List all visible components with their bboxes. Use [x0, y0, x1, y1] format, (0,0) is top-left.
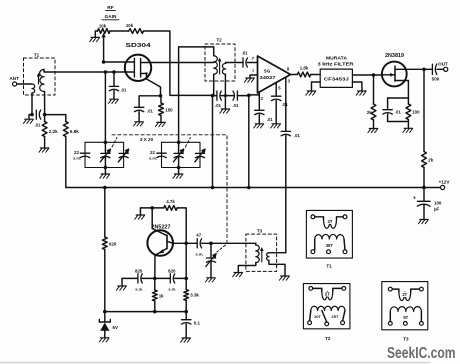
wire 820 to collector node	[175, 242, 188, 281]
2N3819 gate arrow	[382, 73, 395, 77]
detail box T2	[303, 284, 350, 329]
ground 4.7k base	[135, 206, 154, 219]
source RC loop bottom	[388, 114, 409, 121]
label T1 detail	[326, 264, 332, 269]
T2 secondary coil	[222, 63, 225, 74]
svg-text:SG: SG	[264, 69, 271, 74]
capacitor .01 pin 7	[242, 51, 248, 68]
transformer T3 (dashed box)	[246, 229, 277, 272]
ground 0.1 cap	[181, 324, 191, 342]
capacitor 22 tank2	[157, 153, 166, 157]
svg-text:100: 100	[412, 110, 420, 115]
svg-text:2N3819: 2N3819	[385, 53, 404, 59]
capacitor .01 pin 2	[255, 110, 274, 122]
transistor SD304	[125, 43, 151, 81]
capacitor 22 tank1	[80, 153, 89, 157]
svg-text:.01: .01	[147, 108, 153, 113]
svg-text:3.3k: 3.3k	[190, 293, 199, 298]
svg-text:10k: 10k	[99, 24, 107, 29]
capacitor .01 injection	[281, 131, 300, 138]
2N3819 channel bar	[394, 66, 396, 81]
2N5227 base lead	[152, 208, 167, 236]
svg-text:s.m.: s.m.	[168, 286, 176, 291]
label 3 X 20 gang	[140, 137, 154, 142]
capacitor .01 source bypass	[134, 96, 160, 114]
svg-text:SD304: SD304	[126, 43, 151, 49]
T3 detail bottom terminals	[388, 322, 423, 326]
pin 8 output	[287, 67, 297, 75]
svg-text:+: +	[413, 196, 416, 202]
label T3 detail	[403, 337, 409, 342]
wire T2 primary top to tank 2	[179, 47, 214, 142]
wire cap to pin 7	[247, 56, 257, 63]
wire T1 secondary top to gate 1	[44, 69, 126, 72]
svg-text:620: 620	[109, 242, 117, 247]
transformer T1 (dashed box)	[24, 53, 56, 96]
wire +12V bus	[66, 186, 426, 190]
pin 3 injection wire	[286, 78, 291, 132]
capacitor .01 pin 5	[272, 96, 289, 107]
ground 100uF	[418, 205, 428, 224]
transistor Q2 2N3819	[382, 53, 407, 86]
ground T3 secondary	[279, 276, 289, 280]
ground source cap	[134, 112, 144, 126]
capacitor 0.1	[182, 312, 201, 326]
node emitter junction	[153, 277, 157, 281]
T2 detail 2T winding	[313, 288, 342, 299]
resistor 3.3k	[184, 278, 200, 311]
capacitor 820 s.m. left	[135, 268, 155, 291]
svg-text:RF: RF	[107, 5, 113, 11]
resistor 2k drain load	[422, 69, 434, 167]
T2 detail tapped winding	[310, 306, 345, 322]
variable capacitor oscillator	[206, 243, 216, 277]
ground source RC	[403, 122, 413, 133]
svg-text:.01: .01	[242, 51, 248, 56]
wire 620 to zener node	[103, 250, 107, 314]
T1 secondary coil	[40, 69, 44, 91]
svg-text:s.m.: s.m.	[149, 156, 157, 161]
T2 detail bottom terminals	[308, 321, 345, 326]
svg-text:25T: 25T	[332, 314, 339, 319]
label T2 detail	[325, 336, 331, 341]
svg-text:.01: .01	[267, 117, 273, 122]
svg-text:2T: 2T	[325, 292, 330, 297]
svg-text:47: 47	[196, 233, 201, 238]
svg-text:MURATA: MURATA	[326, 56, 348, 61]
ground zener	[99, 331, 109, 342]
tank 2 box	[162, 142, 201, 167]
wire gate1 to tank 1	[104, 72, 108, 144]
ground gate cap	[108, 91, 118, 104]
resistor 6.8k	[63, 115, 79, 137]
detail box T1	[306, 210, 352, 258]
capacitor 100uF electrolytic	[413, 188, 442, 212]
T1 detail top terminals	[311, 215, 347, 219]
resistor 620	[102, 188, 116, 250]
ground filter right	[352, 82, 366, 95]
wire supply node to +12V bus	[248, 95, 250, 187]
node A B+ junction	[211, 94, 215, 98]
wire 4.7k to collector	[177, 208, 186, 243]
T1 detail bottom terminals	[311, 250, 347, 254]
pin 5 wire	[276, 83, 281, 97]
svg-text:7: 7	[252, 56, 255, 61]
svg-text:.01: .01	[232, 103, 238, 108]
svg-text:10T: 10T	[314, 314, 321, 319]
zener diode 6V	[99, 312, 119, 331]
T3 detail 5T winding	[390, 307, 421, 322]
wire T2 primary bottom	[213, 74, 215, 95]
tank 1 box	[85, 142, 124, 167]
wire 47 to osc tank	[202, 242, 256, 246]
resistor 2.2k	[42, 122, 58, 137]
wire filter output	[352, 73, 382, 77]
ground cap chain	[220, 96, 230, 114]
transistor Q1 2N5227	[147, 225, 173, 256]
svg-text:2k: 2k	[367, 110, 372, 115]
variable capacitor tank2 main	[173, 142, 183, 167]
svg-text:.01: .01	[35, 123, 41, 128]
svg-text:8: 8	[287, 67, 290, 72]
capacitor 820 s.m. right	[155, 268, 177, 291]
2N3819 drain lead	[395, 68, 426, 72]
svg-text:OUT: OUT	[438, 61, 448, 66]
svg-text:T1: T1	[34, 53, 40, 58]
capacitor 47 s.m.	[186, 233, 203, 257]
ground pin 5 cap	[271, 101, 281, 128]
source RC loop top	[388, 97, 409, 99]
wire 6.8k to +12V bus	[65, 137, 67, 188]
variable capacitor tank1 trimmer	[118, 149, 128, 162]
svg-text:T3: T3	[403, 337, 409, 342]
2N5227 collector	[167, 241, 186, 243]
svg-text:CF3453J: CF3453J	[324, 76, 350, 81]
svg-text:+12V: +12V	[439, 180, 451, 185]
ground tank1	[100, 166, 110, 179]
ground pin 1	[244, 69, 257, 83]
wire ANT to T1 primary	[17, 83, 32, 85]
svg-text:SeekIC.com: SeekIC.com	[387, 345, 456, 362]
transformer T2 (dashed box)	[205, 38, 235, 82]
label 22 s.m. tank1	[73, 150, 81, 161]
wire 2k to bus	[423, 168, 425, 188]
wire oscillator emitter rail	[105, 310, 188, 314]
svg-text:4.7k: 4.7k	[166, 199, 175, 204]
ground 820 left	[116, 278, 137, 290]
T3 core arrow	[260, 247, 264, 262]
svg-text:.01: .01	[294, 133, 300, 138]
T3 secondary coil	[267, 253, 269, 261]
ground oscillator cap	[205, 278, 215, 282]
pin 2 wire	[249, 92, 264, 110]
svg-text:3 X 20: 3 X 20	[140, 137, 154, 142]
T2 core arrow	[218, 58, 222, 75]
ground filter left	[306, 82, 320, 95]
T3 detail 2T winding	[392, 289, 419, 300]
node ANT input terminal	[9, 76, 19, 86]
wire cap chain	[221, 94, 233, 97]
capacitor .01 bypass right	[232, 91, 238, 108]
svg-text:GAIN: GAIN	[105, 14, 118, 20]
wire injection to T3	[285, 136, 287, 253]
SD304 drain lead	[141, 62, 214, 64]
svg-text:820: 820	[168, 268, 176, 273]
ground pot left	[90, 31, 100, 42]
svg-text:1.8k: 1.8k	[300, 66, 309, 71]
resistor 10k (drain feed)	[126, 23, 144, 33]
T2 detail top terminals	[309, 287, 346, 291]
svg-text:2: 2	[261, 96, 264, 101]
T2 primary coil	[214, 56, 218, 75]
wire pot to 10k	[110, 30, 129, 32]
svg-text:5T: 5T	[403, 315, 408, 320]
gang dash to tank1	[112, 138, 117, 148]
wire 1.8k to filter	[311, 74, 321, 76]
wire T2 secondary top to pin7 cap	[226, 62, 243, 65]
svg-text:820: 820	[135, 268, 143, 273]
detail box T3	[382, 282, 428, 330]
ground 2.2k	[39, 137, 49, 153]
resistor 1.8k	[297, 66, 310, 77]
ground tank2	[173, 166, 183, 179]
svg-text:100: 100	[434, 201, 442, 206]
wire T1 primary bottom	[30, 93, 34, 116]
svg-text:0.1: 0.1	[194, 321, 201, 326]
node gate1 tank feed	[104, 70, 108, 74]
potentiometer 10k RF GAIN	[98, 24, 111, 34]
svg-text:2k: 2k	[428, 158, 433, 163]
svg-text:35T: 35T	[326, 243, 334, 248]
svg-text:500: 500	[432, 77, 440, 82]
T1 primary coil	[32, 84, 35, 93]
label RF GAIN	[102, 5, 119, 20]
scan artifact bottom streak	[0, 362, 430, 364]
resistor 100 source	[406, 98, 420, 120]
variable capacitor tank1 main	[100, 142, 110, 167]
label 22 s.m. tank2	[149, 150, 157, 161]
2N3819 source lead	[395, 81, 408, 99]
ground 2k gate	[368, 120, 378, 133]
svg-text:22: 22	[150, 150, 155, 155]
node SD304 source junction	[159, 94, 163, 98]
ground pin 2 cap	[254, 115, 264, 128]
svg-text:.01: .01	[215, 103, 221, 108]
capacitor .01 T1 bottom	[35, 110, 41, 128]
resistor 4.7k	[152, 199, 177, 210]
ground 150	[155, 116, 165, 127]
SD304 channel bar	[140, 59, 142, 78]
node tank2 feed	[177, 141, 181, 145]
T1 detail 35T winding	[315, 234, 345, 249]
gang dash to oscillator cap	[217, 245, 226, 252]
svg-text:T2: T2	[325, 336, 331, 341]
wire T3 secondary top	[269, 252, 286, 254]
svg-text:5: 5	[278, 86, 281, 91]
svg-text:150: 150	[165, 108, 173, 113]
svg-text:.01: .01	[121, 88, 127, 93]
svg-text:1k: 1k	[159, 294, 164, 299]
2N5227 base bar	[166, 235, 168, 248]
wire T2 secondary bottom	[224, 74, 226, 95]
capacitor output coupling	[424, 64, 437, 74]
node OUT terminal	[432, 61, 448, 81]
svg-text:6.8k: 6.8k	[70, 129, 79, 134]
svg-text:s.m.: s.m.	[135, 286, 143, 291]
SD304 gate 2 lead	[104, 61, 135, 63]
wire node A to +12V bus	[212, 96, 214, 188]
svg-text:34027: 34027	[260, 75, 277, 80]
svg-text:2.2k: 2.2k	[49, 129, 58, 134]
svg-text:T1: T1	[326, 264, 332, 269]
label SeekIC.com watermark	[387, 345, 456, 362]
svg-text:T2: T2	[216, 38, 222, 43]
T1 detail 3T winding	[315, 217, 343, 229]
2N5227 emitter	[155, 248, 167, 278]
wire to 6.8k	[45, 114, 66, 116]
node T1 secondary bottom	[43, 92, 47, 122]
wire 10k to B+ jog	[144, 31, 213, 95]
op-amp U1 SG 34027	[258, 56, 291, 93]
resistor 150	[159, 96, 174, 116]
wire T3 secondary to ground	[269, 260, 285, 275]
svg-text:10k: 10k	[126, 23, 134, 28]
T3 detail top terminals	[388, 287, 423, 291]
capacitor .01 source	[383, 98, 402, 115]
svg-text:3: 3	[288, 79, 291, 84]
gang dashed line	[112, 135, 227, 242]
ground T1 primary	[23, 115, 33, 124]
svg-text:s.m.: s.m.	[195, 251, 203, 256]
resistor 1k	[152, 278, 164, 311]
resistor 2k gate	[367, 75, 376, 120]
svg-text:µF: µF	[434, 207, 440, 212]
capacitor .01 bypass left	[213, 91, 222, 108]
svg-text:.01: .01	[395, 110, 401, 115]
T3 primary coil	[256, 243, 259, 262]
pot wiper arrow to gate 2	[102, 33, 106, 64]
svg-text:22: 22	[74, 150, 79, 155]
SD304 gate bar	[133, 59, 135, 78]
wire to supply node	[237, 94, 250, 98]
svg-text:3T: 3T	[328, 219, 333, 224]
svg-text:1: 1	[252, 69, 254, 73]
node +12V terminal	[424, 180, 450, 190]
svg-text:ANT: ANT	[9, 76, 19, 81]
filter U2 MURATA CF3453J	[318, 56, 355, 88]
SD304 source lead	[141, 72, 161, 96]
gang dash to tank2	[185, 138, 190, 148]
svg-text:3 kHz FILTER: 3 kHz FILTER	[318, 61, 355, 66]
SD304 gate 1 lead	[126, 71, 134, 73]
svg-text:6V: 6V	[113, 325, 120, 330]
T1 core arrow	[37, 73, 41, 85]
ground T3 primary	[233, 273, 243, 277]
svg-text:2T: 2T	[402, 292, 407, 297]
svg-text:T3: T3	[257, 229, 263, 234]
capacitor .01 gate 1	[109, 70, 127, 92]
wire T3 primary to ground	[238, 263, 256, 272]
variable capacitor tank2 trimmer	[195, 149, 205, 162]
